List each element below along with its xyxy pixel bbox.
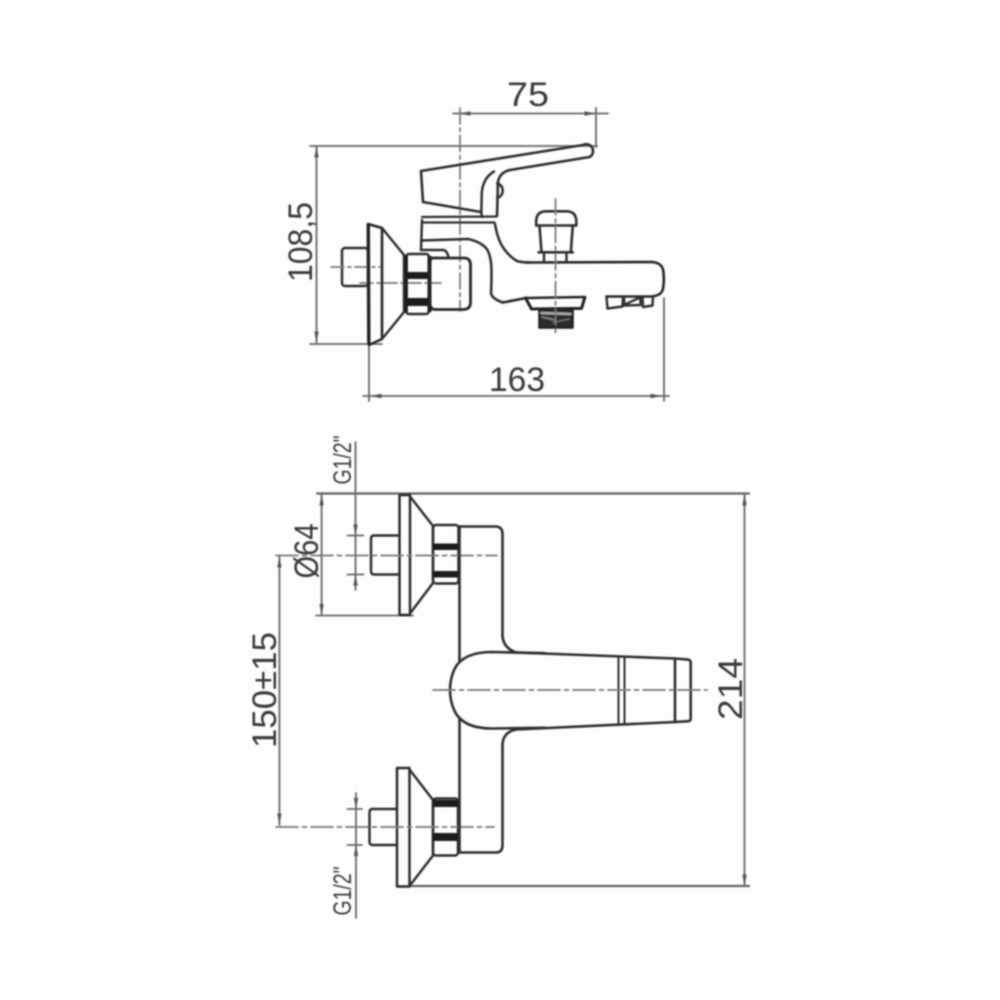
dimension 75 line — [453, 113, 608, 115]
body dome curve right — [495, 224, 530, 263]
dimension 75 text — [507, 76, 549, 114]
top eccentric hex facet bands — [433, 544, 459, 578]
handle wedge drop line — [480, 212, 483, 218]
collar top line — [422, 217, 497, 223]
aerator boss trapezoid — [526, 298, 585, 309]
spout outline (plan view) — [503, 636, 676, 744]
dimension G1/2 bottom ticks — [348, 809, 363, 845]
flange plate (side view) — [368, 224, 382, 345]
top eccentric hex nut (plan view) — [433, 525, 459, 584]
dimension 150 plus-minus 15 arrows — [277, 556, 281, 825]
aerator knurled ring — [539, 310, 573, 329]
bottom eccentric flange plate (plan view) — [397, 768, 410, 887]
spout joint double line (plan view) — [619, 657, 625, 724]
hex nut (side view) — [406, 254, 429, 314]
dimension G1/2 bottom text — [329, 867, 357, 916]
spout outline (side view) — [503, 262, 664, 303]
dimension 150 plus-minus 15 text — [246, 632, 284, 748]
flange cone (side view) — [382, 228, 404, 339]
collar left edge — [421, 220, 422, 250]
diverter knob cap — [536, 211, 576, 225]
handle neck inner curve — [481, 172, 494, 212]
diverter knob body — [540, 226, 573, 253]
dimension G1/2 bottom leader line — [355, 793, 357, 918]
svg-text:163: 163 — [489, 361, 545, 399]
svg-text:G1/2": G1/2" — [329, 436, 357, 485]
diverter knob stem — [544, 252, 567, 261]
bottom eccentric nipple (plan view) — [370, 809, 398, 845]
dimension G1/2 bottom arrows — [354, 798, 358, 856]
dimension 150 plus-minus 15 line — [278, 556, 280, 825]
handle lever — [421, 144, 593, 216]
dimension diameter 64 line — [321, 494, 323, 616]
svg-text:Ø64: Ø64 — [288, 524, 326, 579]
cartridge axis centerline — [459, 108, 461, 311]
bottom eccentric flange cone (plan view) — [410, 770, 434, 887]
body inlet axis centerline — [360, 282, 441, 284]
dimension 108,5 line — [316, 146, 318, 343]
dimension diameter 64 text — [288, 524, 326, 579]
body slab outline (plan view) — [460, 527, 503, 853]
handle screw cap bump — [497, 184, 502, 198]
union inlet leg — [430, 258, 471, 310]
dimension diameter 64 arrows — [319, 494, 323, 616]
dimension 163 left extension line — [368, 345, 370, 401]
dimension 108,5 top extension line — [310, 145, 597, 147]
svg-text:150±15: 150±15 — [246, 632, 284, 748]
dimension G1/2 top text — [329, 436, 357, 485]
dimension 214 arrows — [742, 494, 746, 886]
spout underside tabs — [607, 297, 654, 309]
body dome curve left — [421, 239, 503, 303]
dimension 108,5 bottom extension line — [310, 343, 382, 345]
bottom eccentric hex nut (plan view) — [433, 799, 458, 856]
dimension 214 line — [744, 494, 746, 887]
wall nipple axis centerline — [331, 266, 381, 268]
lower view: bottom extension line — [410, 885, 749, 887]
diverter knob base line — [539, 251, 573, 254]
spout tip cap (plan view) — [675, 659, 691, 723]
dimension diameter 64 bottom extension line — [316, 615, 413, 617]
dimension 214 text — [712, 658, 750, 720]
dimension 75 arrows — [459, 111, 596, 115]
top eccentric nipple (plan view) — [371, 536, 400, 575]
bottom eccentric hex facet bands — [433, 800, 458, 841]
bottom eccentric axis centerline — [276, 826, 494, 828]
dimension 163 text — [489, 361, 545, 399]
dimension 163 arrows — [370, 394, 662, 398]
dimension G1/2 top leader line — [355, 442, 357, 590]
dimension 108,5 text — [282, 202, 320, 282]
dimension 163 line — [363, 395, 669, 397]
cartridge cap bulge (plan view) — [450, 652, 545, 729]
spout axis centerline (plan view) — [433, 689, 707, 691]
wall nipple (side view) — [342, 248, 368, 286]
dimension 108,5 arrows — [314, 146, 318, 343]
top eccentric flange plate (plan view) — [400, 495, 411, 615]
svg-text:G1/2": G1/2" — [329, 867, 357, 916]
dimension G1/2 top ticks — [348, 536, 364, 575]
hex nut facet bands — [405, 256, 432, 312]
collar shelf line — [421, 250, 449, 258]
body slab left edge (plan view) — [458, 527, 461, 853]
diverter and aerator axis centerline — [555, 199, 557, 334]
dimension 75 right extension line — [595, 108, 597, 147]
dimension 163 right extension line — [663, 298, 665, 401]
dimension G1/2 top arrows — [353, 525, 357, 586]
svg-text:75: 75 — [507, 76, 549, 114]
lower view: top extension line — [317, 492, 749, 494]
top eccentric flange cone (plan view) — [410, 497, 433, 614]
top eccentric axis centerline — [276, 555, 497, 557]
svg-text:108,5: 108,5 — [282, 202, 320, 282]
